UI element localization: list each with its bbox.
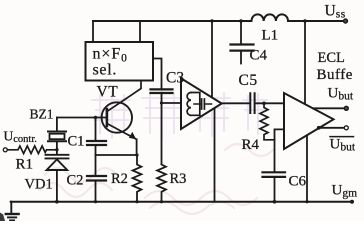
wire C1C2 junction to emitter node	[96, 154, 138, 156]
wire amp ground	[214, 108, 216, 201]
wire emitter down	[136, 139, 138, 155]
wire rail to amp top	[211, 21, 213, 98]
tank symbol coil	[187, 93, 191, 116]
ground symbol	[6, 202, 19, 221]
op-amp U2 (oscillator amp)	[181, 78, 222, 129]
wire rail to C4	[240, 21, 242, 44]
varactor VD1	[46, 155, 69, 170]
svg-text:ECL: ECL	[318, 50, 345, 66]
corner artifact	[0, 213, 5, 222]
svg-text:C3: C3	[166, 70, 184, 87]
wire BZ1 top	[56, 118, 58, 131]
svg-text:R4: R4	[242, 137, 260, 153]
capacitor C5	[250, 93, 254, 113]
wire output inverted	[320, 127, 346, 129]
node base/C1	[94, 116, 97, 119]
Uout-bar terminal	[344, 126, 348, 130]
wire rail to box right pin	[139, 21, 141, 42]
crystal BZ1	[48, 132, 66, 142]
svg-text:VD1: VD1	[25, 177, 53, 193]
svg-text:Buffe: Buffe	[317, 67, 353, 83]
wire rail to box left pin	[92, 21, 94, 42]
resistor R3	[157, 165, 166, 202]
wire amp out to C5	[222, 102, 250, 104]
wire base node down to C1	[95, 118, 97, 141]
svg-text:BZ1: BZ1	[30, 107, 54, 122]
node emitter/R2	[135, 153, 138, 156]
node rail-C4	[239, 19, 242, 22]
wire C6 to ground rail	[274, 178, 276, 202]
svg-text:Ugm: Ugm	[332, 183, 358, 200]
wire rail to ECL top	[304, 21, 306, 104]
wire node to C6	[274, 140, 276, 171]
VT emitter	[107, 124, 137, 140]
svg-text:C2: C2	[67, 173, 84, 189]
n x F0 selector box U1	[86, 42, 154, 81]
wire box to C3	[153, 59, 162, 89]
wire C1 to junction	[95, 146, 97, 175]
capacitor C4	[231, 45, 254, 51]
capacitor C6	[263, 172, 286, 177]
top rail	[93, 20, 344, 22]
svg-text:C1: C1	[68, 134, 85, 150]
rail junction dots	[55, 200, 59, 204]
inductor L1	[252, 14, 289, 21]
transistor VT	[102, 102, 132, 132]
wire R4/C6 node up to ECL lower input	[275, 129, 285, 139]
node A	[160, 101, 163, 104]
wire C3 to node A	[161, 94, 163, 163]
Uout terminal	[344, 106, 348, 110]
node C5/R4	[262, 102, 266, 106]
svg-text:C6: C6	[289, 174, 307, 190]
capacitor C1	[87, 141, 106, 145]
ECL buffer U3	[284, 93, 334, 149]
wire VD1 to ground rail	[56, 170, 58, 202]
svg-text:L1: L1	[262, 28, 279, 44]
overline for Uout-bar label	[330, 136, 354, 138]
capacitor C3	[151, 89, 173, 93]
svg-text:C5: C5	[239, 72, 258, 89]
tank symbol frame	[191, 93, 200, 116]
capacitor C2	[87, 176, 106, 181]
VT collector	[107, 81, 141, 112]
wire output Uout	[313, 107, 345, 109]
wire BZ1 to R1 node	[56, 142, 58, 154]
VT emitter arrow	[129, 132, 136, 139]
resistor R1	[7, 146, 57, 154]
resistor R2	[133, 155, 142, 202]
tank capacitor	[194, 103, 212, 105]
node rail-ECL	[303, 19, 306, 22]
svg-text:R2: R2	[111, 171, 128, 187]
svg-text:Ubut: Ubut	[330, 137, 356, 154]
wire base	[57, 117, 107, 119]
svg-text:C4: C4	[250, 48, 268, 64]
svg-text:sel.: sel.	[93, 62, 118, 79]
node R1/VD1	[55, 148, 58, 151]
C4 bottom stub	[240, 52, 242, 64]
Ugm terminal dot	[350, 200, 354, 204]
wire node A to amp input	[162, 102, 182, 104]
wire C5 to ECL input	[255, 102, 284, 104]
VT base bar	[106, 109, 109, 126]
wire ECL ground	[306, 135, 308, 201]
Ucontr input terminal	[3, 148, 7, 152]
svg-text:Ucontr.: Ucontr.	[4, 129, 37, 146]
node rail-amp	[210, 19, 213, 22]
svg-text:Uss: Uss	[325, 3, 346, 21]
wire C2 to ground rail	[95, 182, 97, 202]
svg-text:VT: VT	[97, 84, 119, 101]
Uss terminal	[344, 19, 348, 23]
svg-text:R1: R1	[16, 157, 34, 173]
svg-text:R3: R3	[170, 171, 187, 187]
node inverted output	[317, 126, 321, 130]
resistor R4	[260, 103, 275, 140]
svg-text:Ubut: Ubut	[328, 86, 354, 103]
ground rail	[11, 201, 352, 203]
